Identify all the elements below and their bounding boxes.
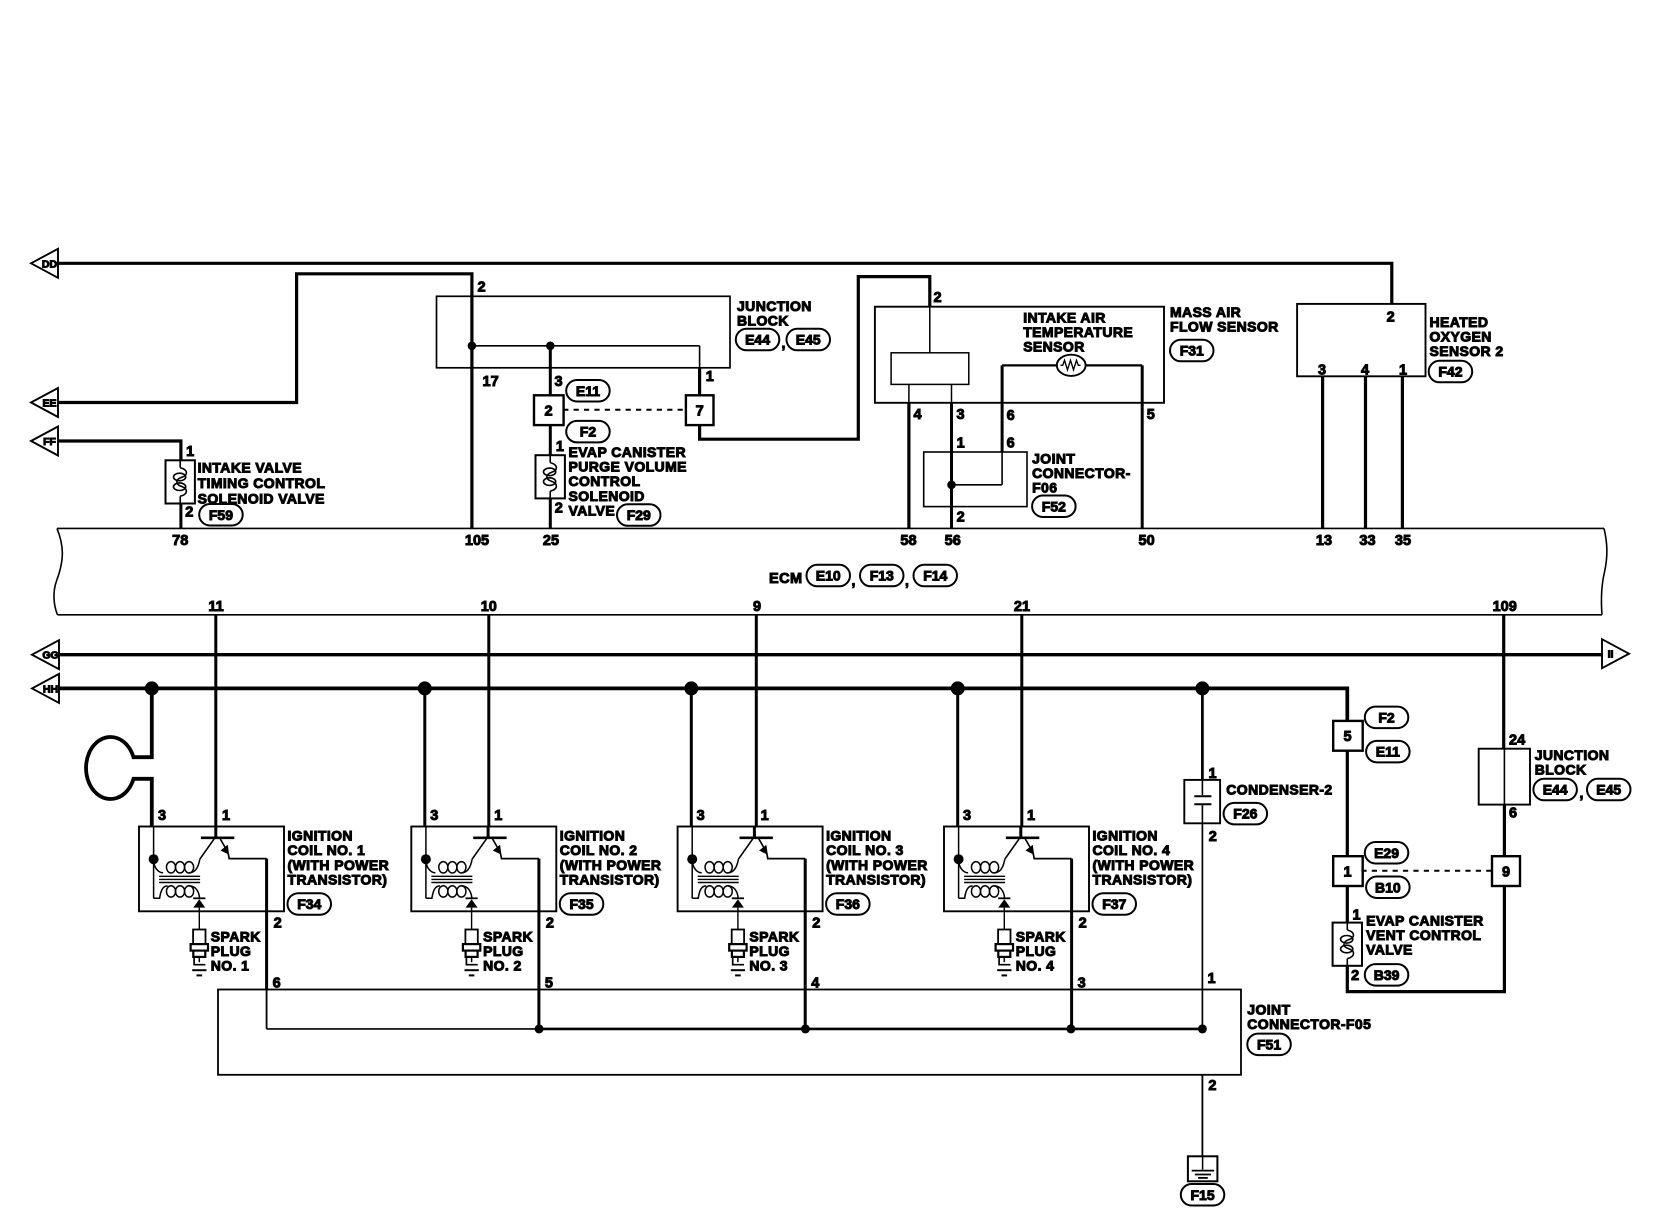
svg-text:2: 2 [546, 915, 554, 931]
ignition coil no. 1 (F34) box [139, 827, 284, 912]
junction block right name [1535, 747, 1610, 778]
oval E44 (right) [1533, 779, 1577, 801]
wire FF to intake valve timing control solenoid pin 1 [58, 441, 181, 460]
coil 4 primary winding [959, 859, 1005, 873]
junction block internal bus [472, 346, 700, 368]
wire MAF pin 6 into joint connector F06 [1001, 365, 1004, 484]
svg-text:F35: F35 [569, 896, 593, 912]
connector box pin 7 [686, 395, 714, 425]
svg-text:F36: F36 [836, 896, 860, 912]
svg-text:TEMPERATURE: TEMPERATURE [1023, 324, 1133, 340]
svg-text:GG: GG [42, 650, 58, 662]
svg-text:10: 10 [481, 599, 497, 615]
wire HH to coil 1 pin 3 with noise-suppressor loop [86, 688, 152, 826]
svg-text:1: 1 [761, 808, 769, 824]
wire MAF pin 3 to ECM 56 [950, 403, 953, 529]
coil 2 pin 3 inner lead [425, 827, 427, 899]
svg-text:COIL NO. 1: COIL NO. 1 [288, 842, 366, 858]
oval F31 [1170, 340, 1214, 362]
svg-text:,: , [1580, 785, 1584, 801]
junction block right internal lead [1503, 749, 1505, 805]
spark plug no. 2 label [483, 928, 533, 973]
HH junction dot condenser [1195, 681, 1209, 695]
svg-text:COIL NO. 4: COIL NO. 4 [1093, 842, 1171, 858]
page connector arrow HH [32, 674, 59, 703]
coil 2 core [431, 876, 472, 882]
svg-text:5: 5 [1147, 407, 1155, 423]
coil 3 secondary winding [692, 886, 738, 899]
wire HH to condenser pin 1 [1201, 688, 1204, 780]
ECM box [54, 528, 1607, 614]
coil 2 internal junction dot [421, 854, 431, 864]
wire connector 5 to connector 1 [1346, 750, 1349, 857]
svg-text:BLOCK: BLOCK [737, 312, 789, 328]
F05 bus dot coil2 [535, 1024, 544, 1033]
intake valve timing control solenoid valve name [198, 460, 326, 507]
oval F2 (right) [1365, 707, 1409, 729]
wire connector 1 to EVAP vent valve pin 1 [1346, 885, 1349, 922]
coil 3 pin 3 inner lead [691, 827, 693, 899]
coil 4 power transistor [1005, 827, 1072, 860]
svg-text:5: 5 [1344, 729, 1352, 745]
svg-text:B39: B39 [1374, 967, 1400, 983]
intake air temperature sensor name [1023, 309, 1133, 354]
svg-text:ECM: ECM [769, 571, 802, 587]
wire GG bus to II [58, 653, 1603, 656]
wire junction block pin 1 to connector 7 to mass air flow sensor pin 2 [700, 277, 930, 440]
wire HH to coil 3 pin 3 [690, 688, 693, 826]
svg-text:F13: F13 [870, 568, 894, 584]
svg-text:PLUG: PLUG [211, 943, 252, 959]
coil 4 pin 2 wire (emitter to joint connector) [1070, 859, 1073, 1029]
svg-text:F2: F2 [580, 424, 597, 440]
svg-text:1: 1 [1399, 362, 1407, 378]
F05 internal bus (thick segment) [538, 1028, 1203, 1031]
oval F51 [1247, 1034, 1291, 1056]
svg-text:105: 105 [465, 533, 489, 549]
svg-text:50: 50 [1139, 533, 1155, 549]
ECM bottom pin number labels [208, 599, 1516, 615]
oval F2 [566, 421, 610, 443]
svg-text:VENT CONTROL: VENT CONTROL [1366, 927, 1481, 943]
coil 1 pin 2 wire (emitter to joint connector) [265, 859, 268, 990]
svg-text:TRANSISTOR): TRANSISTOR) [1093, 871, 1193, 887]
coil 2 power transistor [472, 827, 539, 860]
oval F36 [826, 893, 870, 915]
HH junction dot coil3 [684, 681, 698, 695]
svg-text:F2: F2 [1378, 709, 1395, 725]
page connector arrow FF [31, 427, 58, 456]
MAF inner hot-wire element box [891, 307, 969, 403]
wire junction block pin3 through connector E11/F2 and purge solenoid to ECM 25 [549, 346, 552, 529]
svg-text:F26: F26 [1233, 806, 1257, 822]
svg-text:17: 17 [483, 374, 499, 390]
svg-text:IGNITION: IGNITION [288, 828, 353, 844]
svg-text:,: , [852, 573, 856, 589]
svg-text:1: 1 [1344, 864, 1352, 880]
svg-text:SPARK: SPARK [749, 928, 799, 944]
svg-text:1: 1 [1209, 766, 1217, 782]
svg-text:SENSOR 2: SENSOR 2 [1430, 343, 1504, 359]
svg-text:INTAKE VALVE: INTAKE VALVE [198, 460, 302, 476]
coil 4 core [964, 876, 1005, 882]
svg-text:F51: F51 [1257, 1036, 1281, 1052]
svg-text:9: 9 [753, 599, 761, 615]
svg-text:MASS AIR: MASS AIR [1170, 304, 1241, 320]
F05 bus corner from coil1 pin 6 [266, 990, 268, 1029]
svg-text:2: 2 [812, 915, 820, 931]
vent valve labels [1351, 907, 1360, 984]
svg-text:13: 13 [1316, 533, 1332, 549]
oval F52 [1032, 496, 1076, 518]
svg-text:TRANSISTOR): TRANSISTOR) [826, 871, 926, 887]
page connector arrow EE [31, 388, 58, 417]
MAF / F06 pin labels [914, 290, 1155, 526]
joint connector F05 name [1247, 1002, 1371, 1033]
connector box pin 9 [1492, 856, 1520, 886]
oval F34 [288, 893, 332, 915]
coil 4 pin 3 inner lead [958, 827, 960, 899]
wire DD to heated oxygen sensor pin 2 [58, 263, 1392, 304]
wire ECM 9 to coil 3 pin 1 [755, 615, 758, 827]
svg-text:II: II [1608, 649, 1614, 661]
svg-text:NO. 2: NO. 2 [483, 958, 522, 974]
wire EE to junction block pin 2 / ECM 105 [58, 274, 472, 529]
svg-text:3: 3 [957, 407, 965, 423]
svg-text:JOINT: JOINT [1247, 1002, 1290, 1018]
EVAP canister vent control valve name [1366, 912, 1483, 957]
coil 2 secondary winding [426, 886, 472, 899]
coil 4 secondary diode [998, 898, 1010, 911]
svg-text:2: 2 [934, 290, 942, 306]
F06 junction dot [947, 481, 956, 490]
svg-text:TRANSISTOR): TRANSISTOR) [288, 871, 388, 887]
svg-text:4: 4 [914, 407, 922, 423]
wire condenser pin 2 to joint connector F05 pin 1 [1201, 823, 1203, 1029]
svg-text:(WITH POWER: (WITH POWER [826, 857, 928, 873]
svg-text:E11: E11 [1376, 744, 1400, 760]
coil 1 pin 3 inner lead [153, 827, 155, 899]
svg-text:1: 1 [1027, 808, 1035, 824]
svg-text:6: 6 [1007, 435, 1015, 451]
F05 bus dot coil3 [801, 1024, 810, 1033]
coil 4 secondary winding [959, 886, 1005, 899]
junction block right labels [1509, 732, 1525, 821]
svg-text:3: 3 [430, 808, 438, 824]
labels for F59 solenoid [185, 444, 194, 520]
svg-text:35: 35 [1395, 533, 1411, 549]
svg-text:1: 1 [706, 369, 714, 385]
svg-text:3: 3 [158, 808, 166, 824]
oval E11 (right) [1366, 741, 1410, 763]
page connector arrow GG [32, 640, 59, 669]
oval F15 [1181, 1184, 1225, 1206]
mass air flow sensor box F31 [875, 307, 1164, 403]
svg-text:E11: E11 [576, 383, 600, 399]
svg-text:F34: F34 [297, 896, 321, 912]
svg-text:,: , [905, 573, 909, 589]
wire ECM 10 to coil 2 pin 1 [487, 615, 490, 827]
svg-text:IGNITION: IGNITION [826, 828, 891, 844]
junction block E44/E45 box [437, 296, 731, 368]
intake air temperature sensor thermistor [1002, 355, 1142, 376]
ignition coil no. 3 name text [826, 828, 928, 888]
EVAP canister purge volume control solenoid valve name [569, 444, 687, 518]
svg-text:JOINT: JOINT [1032, 450, 1075, 466]
EVAP canister vent control valve B39 [1333, 923, 1362, 966]
coil 2 primary winding [426, 859, 472, 873]
joint connector F06 box [924, 452, 1027, 507]
svg-text:(WITH POWER: (WITH POWER [560, 857, 662, 873]
svg-text:109: 109 [1493, 599, 1517, 615]
svg-text:78: 78 [172, 533, 188, 549]
svg-text:2: 2 [1387, 309, 1395, 325]
svg-text:2: 2 [274, 915, 282, 931]
coil 3 power transistor [738, 827, 805, 860]
svg-text:F14: F14 [923, 568, 947, 584]
svg-text:F06: F06 [1032, 480, 1057, 496]
EVAP canister purge volume control solenoid valve F29 [536, 455, 565, 498]
svg-text:F52: F52 [1042, 498, 1066, 514]
svg-text:TIMING CONTROL: TIMING CONTROL [198, 475, 326, 491]
svg-text:EVAP CANISTER: EVAP CANISTER [1366, 912, 1483, 928]
spark plug no. 2 [463, 911, 480, 975]
spark plug no. 3 [729, 911, 746, 975]
svg-text:7: 7 [696, 403, 704, 419]
coil 1 primary winding [154, 859, 200, 873]
coil 4 internal junction dot [954, 854, 964, 864]
oval F14 [914, 565, 958, 587]
coil 1 secondary winding [154, 886, 200, 899]
svg-text:2: 2 [1208, 1078, 1216, 1094]
spark plug no. 4 [996, 911, 1013, 975]
svg-text:CONDENSER-2: CONDENSER-2 [1226, 782, 1332, 798]
HH junction dot coil4 [951, 681, 965, 695]
svg-text:IGNITION: IGNITION [560, 828, 625, 844]
svg-text:1: 1 [556, 439, 564, 455]
svg-text:E29: E29 [1374, 845, 1399, 861]
coil 4 pin labels [963, 808, 1087, 992]
joint connector F05 box [218, 990, 1241, 1075]
svg-text:NO. 4: NO. 4 [1016, 958, 1055, 974]
svg-text:PLUG: PLUG [483, 943, 523, 959]
svg-text:COIL NO. 2: COIL NO. 2 [560, 842, 638, 858]
svg-text:EE: EE [42, 398, 56, 410]
svg-text:(WITH POWER: (WITH POWER [288, 857, 390, 873]
svg-text:1: 1 [1353, 907, 1361, 923]
connector box pin 1 (E29/B10) [1333, 856, 1363, 886]
spark plug no. 1 [191, 911, 208, 975]
svg-text:2: 2 [185, 504, 193, 520]
svg-text:B10: B10 [1375, 879, 1401, 895]
svg-text:INTAKE AIR: INTAKE AIR [1023, 309, 1106, 325]
oval E45 (right) [1587, 779, 1631, 801]
svg-text:F42: F42 [1438, 364, 1462, 380]
ignition coil no. 1 name text [288, 828, 390, 888]
svg-text:58: 58 [900, 533, 916, 549]
wire EVAP vent valve pin 2 to connector 9 [1347, 885, 1504, 991]
heated oxygen sensor 2 box F42 [1297, 304, 1425, 376]
svg-text:VALVE: VALVE [1366, 942, 1413, 958]
ignition coil no. 2 name text [560, 828, 662, 888]
svg-text:24: 24 [1509, 732, 1525, 748]
svg-text:F37: F37 [1102, 896, 1126, 912]
svg-text:SENSOR: SENSOR [1023, 339, 1085, 355]
svg-text:1: 1 [186, 444, 194, 460]
junction block labels [478, 280, 714, 390]
svg-text:SPARK: SPARK [211, 928, 261, 944]
HO2S pin labels [1318, 309, 1407, 378]
coil 1 internal junction dot [149, 854, 159, 864]
svg-text:E45: E45 [796, 332, 821, 348]
svg-text:E44: E44 [745, 332, 770, 348]
coil 3 pin labels [697, 808, 821, 992]
coil 3 secondary diode [732, 898, 744, 911]
dashed connector link 1 to 9 [1361, 870, 1492, 872]
F06 internal link [952, 484, 1003, 486]
svg-text:21: 21 [1014, 599, 1030, 615]
coil 3 primary winding [692, 859, 738, 873]
svg-text:3: 3 [1318, 362, 1326, 378]
junction block node dot A [468, 342, 477, 351]
svg-text:CONNECTOR-: CONNECTOR- [1032, 465, 1131, 481]
svg-text:E45: E45 [1596, 782, 1621, 798]
ignition coil no. 3 (F36) box [678, 827, 823, 912]
svg-text:F15: F15 [1190, 1187, 1214, 1203]
svg-text:FF: FF [43, 436, 56, 448]
svg-text:E44: E44 [1543, 782, 1568, 798]
svg-text:PLUG: PLUG [749, 943, 790, 959]
svg-text:PLUG: PLUG [1016, 943, 1057, 959]
joint connector F06 name [1032, 450, 1131, 495]
svg-text:PURGE VOLUME: PURGE VOLUME [569, 459, 687, 475]
page connector arrow II [1602, 639, 1629, 668]
svg-text:2: 2 [545, 403, 553, 419]
coil 1 core [159, 876, 200, 882]
svg-text:(WITH POWER: (WITH POWER [1093, 857, 1195, 873]
svg-text:2: 2 [957, 510, 965, 526]
svg-text:6: 6 [1007, 408, 1015, 424]
F05 bus dot condenser [1198, 1024, 1207, 1033]
svg-text:2: 2 [1079, 915, 1087, 931]
svg-text:25: 25 [543, 533, 559, 549]
condenser labels [1209, 766, 1217, 845]
svg-text:1: 1 [222, 808, 230, 824]
svg-text:HEATED: HEATED [1430, 314, 1489, 330]
wire ECM 11 to coil 1 pin 1 [214, 615, 217, 827]
svg-text:F29: F29 [627, 507, 651, 523]
svg-text:2: 2 [555, 500, 563, 516]
coil 3 internal junction dot [687, 854, 697, 864]
coil 2 pin 2 wire (emitter to joint connector) [537, 859, 540, 1029]
svg-text:,: , [782, 335, 786, 351]
page connector arrow DD [31, 249, 58, 278]
ignition coil no. 2 (F35) box [411, 827, 556, 912]
coil 1 secondary diode [193, 898, 205, 911]
oval E10 [807, 565, 851, 587]
oval F35 [560, 893, 604, 915]
wire MAF pin 5 to ECM 50 [1141, 365, 1144, 528]
coil 3 pin 2 wire (emitter to joint connector) [804, 859, 807, 1029]
svg-text:3: 3 [963, 808, 971, 824]
svg-text:3: 3 [555, 374, 563, 390]
svg-text:1: 1 [494, 808, 502, 824]
F05 internal bus (thin left segment) [267, 1028, 538, 1030]
junction block name [737, 298, 812, 329]
oval F59 [199, 504, 243, 526]
mass air flow sensor name [1170, 304, 1279, 335]
svg-text:JUNCTION: JUNCTION [1535, 747, 1610, 763]
ground symbol F15 [1188, 1156, 1218, 1181]
svg-text:CONNECTOR-F05: CONNECTOR-F05 [1247, 1016, 1371, 1032]
coil 2 pin labels [430, 808, 554, 992]
spark plug no. 4 label [1016, 928, 1066, 973]
svg-text:TRANSISTOR): TRANSISTOR) [560, 871, 660, 887]
oval F26 [1224, 803, 1268, 825]
wire F05 pin 2 to ground [1201, 1075, 1203, 1157]
svg-text:4: 4 [1361, 362, 1369, 378]
wire connector 9 to junction block pin 6 [1503, 805, 1506, 857]
svg-text:SOLENOID: SOLENOID [569, 488, 645, 504]
wire HH to coil 4 pin 3 [956, 688, 959, 826]
wire ECM 109 to junction block pin 24 [1502, 615, 1505, 749]
ignition coil no. 4 name text [1093, 828, 1195, 888]
svg-text:E10: E10 [816, 568, 841, 584]
svg-text:33: 33 [1359, 533, 1375, 549]
junction block node dot B [546, 342, 555, 351]
svg-text:SPARK: SPARK [1016, 928, 1066, 944]
oval E11 [566, 380, 610, 402]
oval F42 [1429, 361, 1473, 383]
oval F37 [1093, 893, 1137, 915]
svg-text:COIL NO. 3: COIL NO. 3 [826, 842, 904, 858]
svg-text:BLOCK: BLOCK [1535, 762, 1587, 778]
svg-text:NO. 1: NO. 1 [211, 958, 250, 974]
svg-text:HH: HH [43, 683, 58, 695]
junction block E44/E45 (right) box [1479, 749, 1530, 805]
ECM top pin number labels [172, 533, 1411, 549]
dashed connector link E11/F2 to 7 [563, 409, 686, 411]
coil 1 pin labels [158, 808, 282, 992]
svg-text:2: 2 [478, 280, 486, 296]
svg-text:3: 3 [697, 808, 705, 824]
oval E45 (top junction block) [787, 329, 831, 351]
svg-text:EVAP CANISTER: EVAP CANISTER [569, 444, 686, 460]
svg-text:FLOW SENSOR: FLOW SENSOR [1170, 318, 1279, 334]
coil 2 secondary diode [466, 898, 478, 911]
svg-text:F31: F31 [1180, 343, 1204, 359]
coil 1 power transistor [200, 827, 267, 860]
svg-text:IGNITION: IGNITION [1093, 828, 1158, 844]
HH junction dot coil2 [418, 681, 432, 695]
wire solenoid F59 pin 2 to ECM 78 [179, 504, 182, 529]
oval E44 (top junction block) [736, 329, 780, 351]
svg-text:2: 2 [1351, 968, 1359, 984]
svg-text:11: 11 [208, 599, 223, 615]
oval F29 [617, 504, 661, 526]
spark plug no. 1 label [211, 928, 261, 973]
svg-text:1: 1 [957, 435, 965, 451]
F05 bus dot coil4 [1066, 1024, 1075, 1033]
svg-text:9: 9 [1502, 864, 1510, 880]
svg-text:F59: F59 [209, 507, 233, 523]
wire HH bus [58, 688, 1347, 721]
svg-text:VALVE: VALVE [569, 502, 616, 518]
svg-text:SPARK: SPARK [483, 928, 533, 944]
svg-text:56: 56 [945, 533, 961, 549]
svg-text:6: 6 [1509, 806, 1517, 822]
oval B10 [1366, 877, 1410, 899]
